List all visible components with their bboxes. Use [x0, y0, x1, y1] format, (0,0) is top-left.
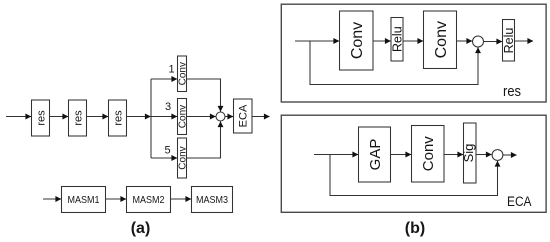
svg-text:Conv: Conv — [349, 22, 366, 59]
svg-text:(a): (a) — [131, 220, 151, 237]
svg-text:res: res — [72, 110, 84, 126]
svg-text:3: 3 — [165, 101, 171, 113]
svg-text:ECA: ECA — [238, 104, 250, 127]
svg-text:Conv: Conv — [420, 136, 437, 172]
svg-text:1: 1 — [168, 64, 174, 76]
svg-text:5: 5 — [164, 145, 170, 157]
svg-text:Sig: Sig — [461, 144, 476, 163]
svg-text:Conv: Conv — [178, 146, 189, 169]
svg-text:Conv: Conv — [433, 21, 450, 58]
svg-text:GAP: GAP — [367, 139, 384, 171]
svg-text:Conv: Conv — [178, 105, 189, 128]
svg-text:MASM2: MASM2 — [133, 195, 165, 206]
svg-text:res: res — [35, 110, 47, 126]
svg-text:Relu: Relu — [391, 26, 405, 52]
svg-text:ECA: ECA — [507, 194, 532, 209]
svg-text:(b): (b) — [405, 220, 425, 237]
svg-text:MASM3: MASM3 — [196, 195, 228, 206]
svg-text:res: res — [503, 83, 521, 100]
svg-text:MASM1: MASM1 — [68, 195, 100, 206]
svg-text:res: res — [112, 110, 124, 126]
svg-text:Conv: Conv — [178, 62, 189, 85]
svg-text:Relu: Relu — [502, 28, 516, 54]
